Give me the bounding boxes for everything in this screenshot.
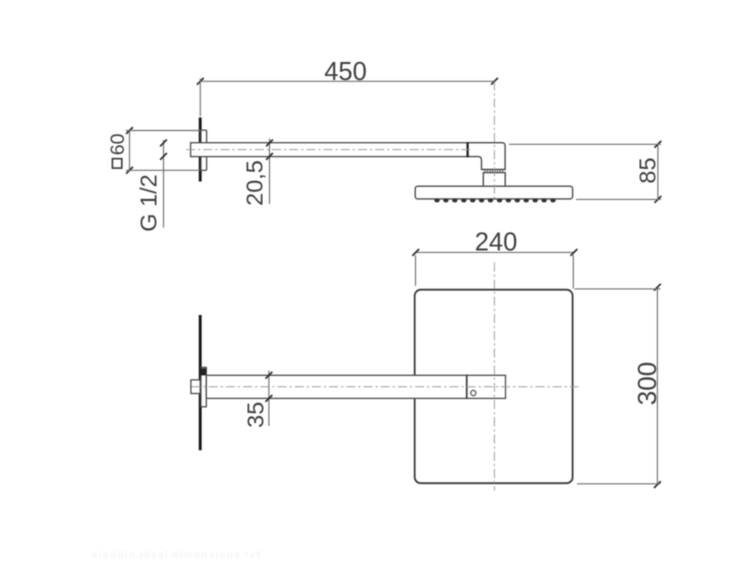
dimension 20,5 tick at pipe bottom	[266, 153, 273, 160]
wall plate disc, edge view (plan view)	[199, 315, 202, 450]
dimension 300 bottom tick	[654, 481, 661, 488]
svg-text:240: 240	[475, 228, 518, 256]
dimension 450 line	[200, 80, 494, 82]
dimension square-60 bottom extension line	[126, 169, 201, 171]
dimension 85 bottom tick	[655, 196, 662, 203]
svg-text:20,5: 20,5	[242, 160, 268, 206]
dimension 240 left tick	[412, 249, 419, 256]
vertical centerline (plan view)	[493, 263, 495, 491]
dimension 240 left extension line	[415, 255, 417, 286]
horizontal centerline (plan view)	[192, 386, 579, 388]
wall flange (side view)	[201, 130, 207, 170]
connector block (plan view)	[467, 375, 506, 398]
dimension 85 top tick	[655, 141, 662, 148]
dimension 240 right extension line	[572, 255, 574, 289]
screw hole on connector block	[471, 390, 476, 395]
shower head outline (plan view)	[415, 290, 573, 484]
dimension 300 top extension line	[575, 288, 661, 290]
svg-text:G 1/2: G 1/2	[136, 174, 162, 231]
vertical centerline of head (side view)	[493, 81, 495, 198]
dimension 450 left extension line	[199, 79, 201, 117]
G 1/2 leader line	[163, 140, 165, 228]
svg-text:60: 60	[107, 133, 129, 155]
dimension square-60 bottom tick	[126, 167, 133, 174]
dimension square-60 vertical line	[129, 131, 131, 171]
dimension 300 vertical line	[656, 287, 658, 484]
elbow joint line (side view)	[467, 142, 469, 157]
dimension 450 right tick	[491, 78, 498, 85]
dimension 35 tick at arm top	[266, 372, 273, 379]
dimension 300 bottom extension line	[577, 483, 661, 485]
dimension square-60 top extension line	[126, 130, 201, 132]
svg-text:85: 85	[634, 157, 660, 183]
shower arm pipe (side view)	[191, 143, 468, 157]
dimension 240 line	[416, 251, 574, 253]
connector nut (side view)	[483, 173, 505, 187]
G 1/2 tick at pipe top	[160, 140, 167, 147]
svg-text:300: 300	[632, 362, 662, 405]
dimension 85 top extension line	[509, 143, 661, 145]
dark fill at flange top (plan view)	[200, 368, 206, 375]
shower head plate (side view)	[415, 186, 572, 199]
shower arm (plan view)	[206, 375, 467, 398]
thread end behind wall (plan view)	[191, 380, 200, 394]
dimension 20,5 tick at pipe top	[266, 140, 273, 147]
wall flange (plan view)	[201, 367, 206, 406]
dimension 450 left tick	[197, 78, 204, 85]
svg-text:35: 35	[243, 402, 269, 428]
G 1/2 tick at pipe bottom	[160, 153, 167, 160]
svg-text:aladdin.ideal dimensions ref: aladdin.ideal dimensions ref	[92, 549, 261, 561]
dimension 85 vertical line	[657, 144, 659, 199]
dimension 85 bottom extension line	[576, 198, 661, 200]
dimension 240 right tick	[571, 249, 578, 256]
elbow body (side view)	[468, 143, 506, 170]
nozzle dots under head plate	[434, 198, 555, 202]
wall plate disc, edge view (side view)	[199, 118, 202, 182]
dimension square-60 top tick	[126, 127, 133, 134]
arm joint line (plan view)	[466, 375, 468, 399]
thread between elbow and nut	[485, 170, 503, 173]
dimension 20,5 vertical line	[269, 139, 271, 205]
horizontal centerline of arm (side view)	[186, 149, 471, 151]
dimension 35 vertical line	[268, 371, 270, 427]
dimension 35 tick at arm bottom	[266, 395, 273, 402]
svg-text:450: 450	[324, 58, 367, 86]
dimension 300 top tick	[654, 284, 661, 291]
